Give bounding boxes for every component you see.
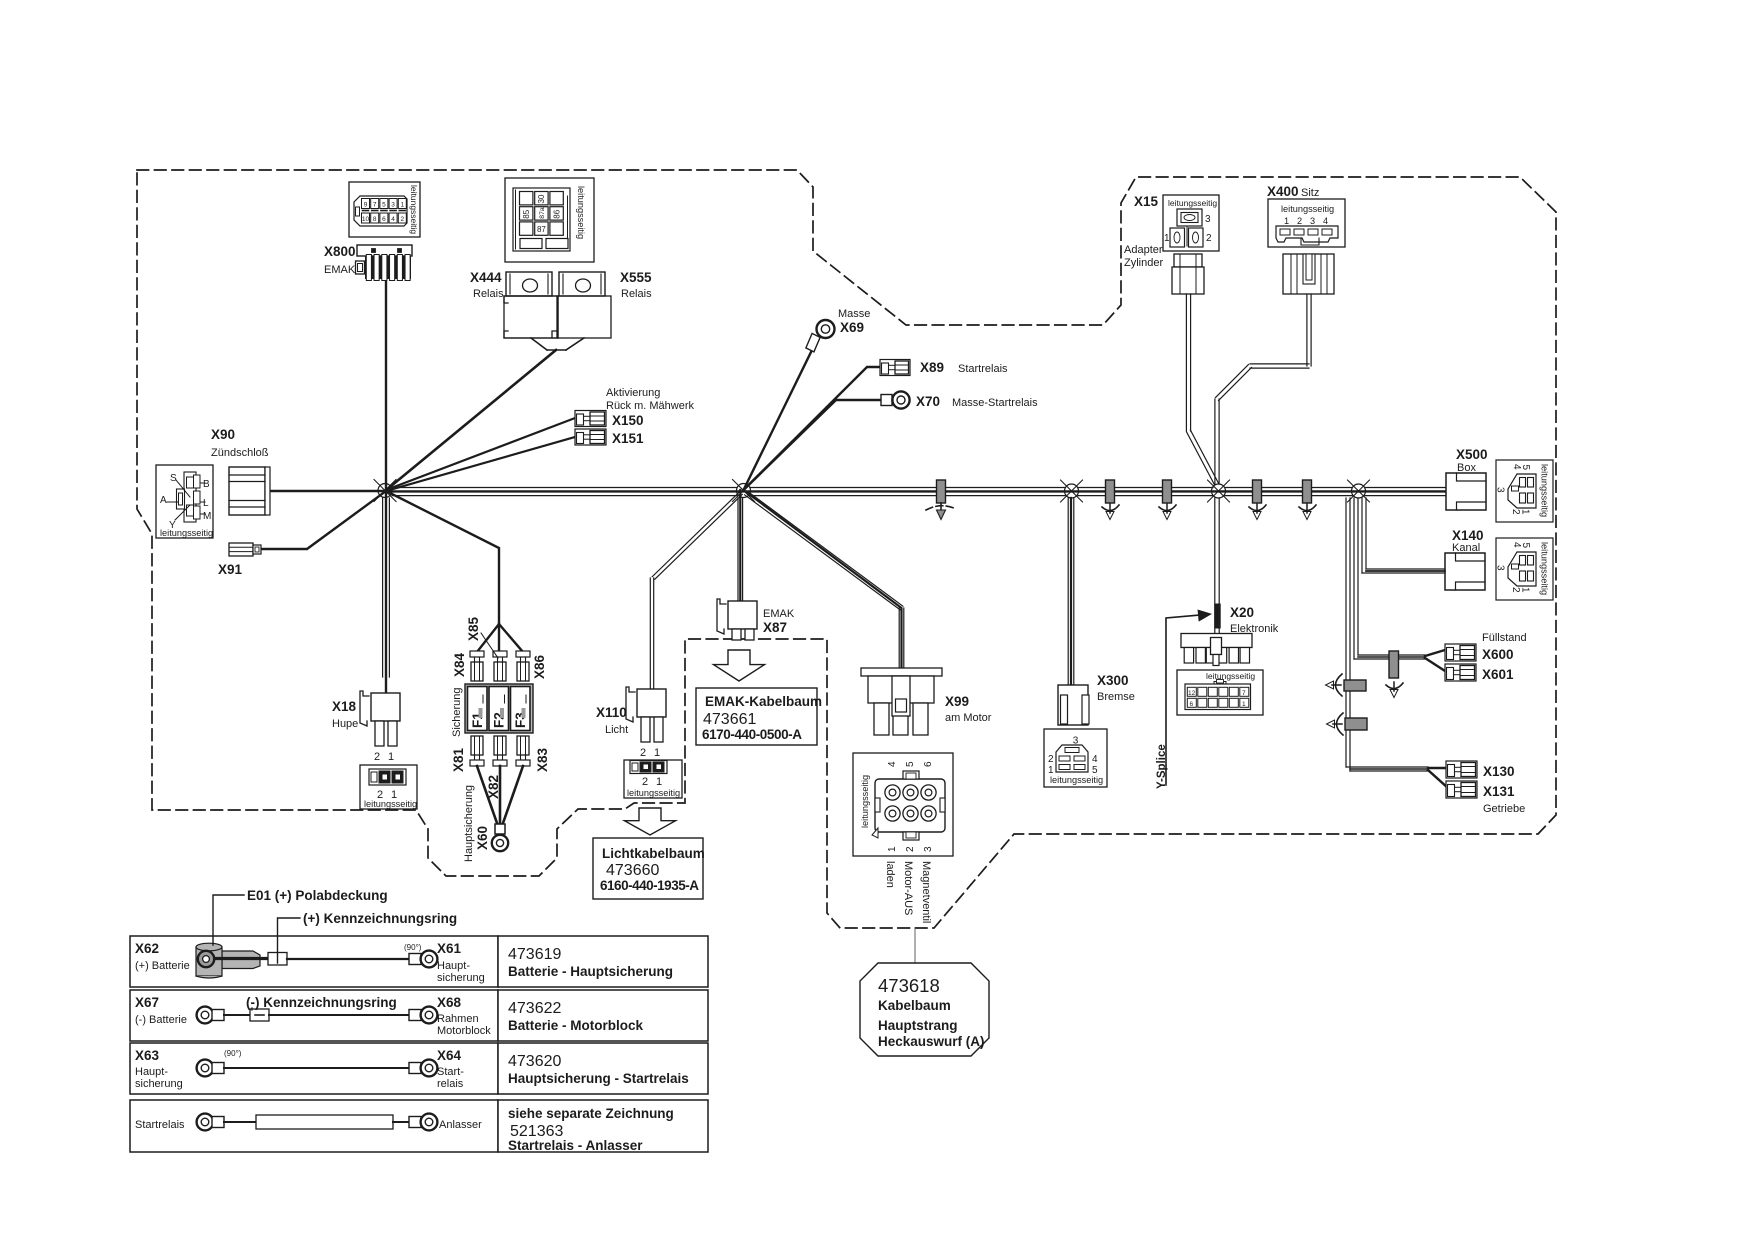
svg-text:(90°): (90°) bbox=[224, 1049, 242, 1058]
svg-text:(90°): (90°) bbox=[404, 943, 422, 952]
svg-text:X444: X444 bbox=[470, 270, 502, 285]
svg-text:8: 8 bbox=[373, 216, 377, 223]
svg-text:Licht: Licht bbox=[605, 724, 628, 736]
svg-text:5: 5 bbox=[382, 202, 386, 209]
svg-text:85: 85 bbox=[522, 209, 531, 218]
svg-text:3: 3 bbox=[1310, 216, 1315, 226]
ring terminal X61 bbox=[409, 954, 421, 965]
svg-text:X63: X63 bbox=[135, 1048, 160, 1063]
svg-text:leitungsseitig: leitungsseitig bbox=[1540, 542, 1550, 595]
svg-text:X85: X85 bbox=[466, 616, 481, 641]
cable tie on bus 1 bbox=[937, 480, 946, 503]
svg-text:86: 86 bbox=[552, 209, 561, 218]
Y-splice callout arrow bbox=[1166, 615, 1200, 785]
svg-text:leitungsseitig: leitungsseitig bbox=[1540, 464, 1550, 517]
node hub2 bbox=[733, 480, 755, 502]
svg-text:Motor-AUS: Motor-AUS bbox=[902, 861, 914, 915]
svg-text:X140: X140 bbox=[1452, 528, 1484, 543]
svg-text:2: 2 bbox=[374, 751, 380, 763]
svg-text:L: L bbox=[203, 498, 209, 509]
svg-text:6160-440-1935-A: 6160-440-1935-A bbox=[600, 878, 699, 893]
svg-text:1: 1 bbox=[388, 751, 394, 763]
svg-text:am Motor: am Motor bbox=[945, 712, 992, 724]
svg-text:Masse-Startrelais: Masse-Startrelais bbox=[952, 397, 1038, 409]
svg-text:X67: X67 bbox=[135, 995, 159, 1010]
svg-text:3: 3 bbox=[1495, 487, 1506, 493]
svg-text:473618: 473618 bbox=[878, 975, 940, 996]
svg-text:Haupt-: Haupt- bbox=[135, 1066, 168, 1078]
arrow to Lichtkabelbaum bbox=[625, 808, 676, 835]
svg-text:X90: X90 bbox=[211, 427, 235, 442]
svg-text:3: 3 bbox=[1495, 565, 1506, 571]
svg-text:leitungsseitig: leitungsseitig bbox=[1050, 775, 1103, 785]
wire X63-X64 bbox=[224, 1067, 410, 1069]
arrow to EMAK-Kabelbaum bbox=[714, 650, 765, 681]
svg-text:10: 10 bbox=[362, 216, 370, 223]
svg-text:X82: X82 bbox=[486, 775, 501, 799]
svg-text:X62: X62 bbox=[135, 941, 159, 956]
svg-text:X500: X500 bbox=[1456, 447, 1488, 462]
label pointer X85 bbox=[481, 633, 498, 658]
link line to octagon bbox=[914, 929, 916, 963]
connector X91 bbox=[229, 543, 261, 556]
wire hub1 to X151 bbox=[386, 437, 575, 491]
svg-text:5: 5 bbox=[905, 761, 916, 767]
pin diagram box for X20 bbox=[1177, 670, 1263, 715]
svg-text:2: 2 bbox=[1048, 754, 1054, 765]
svg-text:Hauptsicherung - Startrelais: Hauptsicherung - Startrelais bbox=[508, 1071, 689, 1086]
svg-text:(+) Kennzeichnungsring: (+) Kennzeichnungsring bbox=[303, 911, 457, 926]
pin diagram box for X15 bbox=[1163, 195, 1219, 251]
svg-text:EMAK: EMAK bbox=[324, 264, 356, 276]
table row 4 box bbox=[130, 1100, 498, 1152]
wire X67-X68 bbox=[269, 1014, 410, 1016]
pin diagram box for X800 bbox=[349, 182, 420, 237]
ring terminal Startrelais bbox=[197, 1114, 214, 1131]
svg-text:2: 2 bbox=[1206, 233, 1212, 244]
svg-text:X64: X64 bbox=[437, 1048, 462, 1063]
svg-text:X99: X99 bbox=[945, 694, 969, 709]
svg-text:6: 6 bbox=[1190, 701, 1194, 708]
svg-text:Startrelais: Startrelais bbox=[958, 363, 1008, 375]
svg-text:7: 7 bbox=[1242, 690, 1246, 697]
connector X150 bbox=[575, 411, 606, 427]
pin diagram box for X500 bbox=[1495, 460, 1554, 522]
wire node3 to X300 (double) bbox=[1067, 498, 1069, 685]
connector X90 bbox=[229, 467, 270, 515]
svg-text:X131: X131 bbox=[1483, 784, 1515, 799]
svg-text:siehe separate Zeichnung: siehe separate Zeichnung bbox=[508, 1106, 674, 1121]
svg-text:Lichtkabelbaum: Lichtkabelbaum bbox=[602, 846, 705, 861]
wire hub1 to X150 bbox=[386, 418, 575, 490]
svg-text:1: 1 bbox=[400, 202, 404, 209]
svg-text:sicherung: sicherung bbox=[437, 972, 485, 984]
svg-text:Sitz: Sitz bbox=[1301, 187, 1319, 199]
wire hub1 to X91 bbox=[259, 491, 386, 549]
pin diagram box for X300 bbox=[1044, 729, 1107, 787]
wire hub2 to X87 (double) bbox=[737, 498, 739, 601]
svg-text:Masse: Masse bbox=[838, 308, 870, 320]
svg-text:Bremse: Bremse bbox=[1097, 691, 1135, 703]
ring terminal X64 bbox=[409, 1063, 421, 1074]
wire hub1 to fuse feeder bbox=[386, 491, 499, 624]
svg-text:EMAK-Kabelbaum: EMAK-Kabelbaum bbox=[705, 694, 822, 709]
svg-text:1: 1 bbox=[1242, 701, 1246, 708]
svg-text:X81: X81 bbox=[451, 747, 466, 772]
svg-text:Magnetventil: Magnetventil bbox=[920, 861, 932, 923]
cable tie on bundle 1 bbox=[1344, 680, 1366, 691]
(+) ring marker bbox=[268, 953, 287, 966]
svg-text:1: 1 bbox=[1520, 587, 1531, 593]
svg-text:Relais: Relais bbox=[621, 288, 652, 300]
wire X400 to node4 (double) bbox=[1306, 294, 1308, 366]
svg-text:4: 4 bbox=[1092, 754, 1098, 765]
relay X555 bbox=[557, 272, 611, 338]
node bus junction node4 bbox=[1208, 480, 1230, 502]
svg-text:Heckauswurf (A): Heckauswurf (A) bbox=[878, 1034, 985, 1049]
svg-text:Sicherung: Sicherung bbox=[451, 687, 463, 737]
ring terminal X63 bbox=[197, 1060, 214, 1077]
wire hub2 to X110 (double) bbox=[652, 492, 740, 577]
svg-text:laden: laden bbox=[884, 861, 896, 888]
svg-text:2: 2 bbox=[400, 216, 404, 223]
connector X601 bbox=[1445, 664, 1476, 681]
svg-text:7: 7 bbox=[373, 202, 377, 209]
dashed harness boundary outline bbox=[137, 170, 1556, 928]
svg-text:2: 2 bbox=[905, 846, 916, 852]
svg-text:2: 2 bbox=[1510, 509, 1521, 515]
svg-text:leitungsseitig: leitungsseitig bbox=[1281, 204, 1334, 214]
svg-text:Y-Splice: Y-Splice bbox=[1156, 744, 1168, 789]
wire hub2 to X99 (double) bbox=[745, 495, 901, 610]
svg-text:4: 4 bbox=[391, 216, 395, 223]
svg-text:F1: F1 bbox=[470, 712, 485, 728]
svg-text:6: 6 bbox=[382, 216, 386, 223]
wire hub1 to relays X444/X555 bbox=[531, 338, 547, 350]
svg-text:X87: X87 bbox=[763, 620, 787, 635]
svg-text:F2: F2 bbox=[492, 712, 507, 728]
svg-text:M: M bbox=[203, 511, 211, 522]
svg-text:X601: X601 bbox=[1482, 667, 1514, 682]
pin display box for X110 bbox=[624, 760, 682, 798]
svg-text:EMAK: EMAK bbox=[763, 608, 795, 620]
svg-text:X300: X300 bbox=[1097, 673, 1129, 688]
wire node4 drop to X20 (double) bbox=[1214, 498, 1216, 634]
wire with sleeve bbox=[224, 1121, 256, 1123]
callout E01 Polabdeckung bbox=[213, 895, 244, 945]
svg-text:X84: X84 bbox=[452, 652, 467, 677]
svg-text:X61: X61 bbox=[437, 941, 462, 956]
svg-text:(-) Kennzeichnungsring: (-) Kennzeichnungsring bbox=[246, 995, 397, 1010]
svg-text:(-) Batterie: (-) Batterie bbox=[135, 1014, 187, 1026]
svg-text:X69: X69 bbox=[840, 320, 864, 335]
svg-text:Batterie - Motorblock: Batterie - Motorblock bbox=[508, 1018, 644, 1033]
ring terminal X60 bbox=[495, 824, 505, 834]
connector X140 bbox=[1445, 553, 1485, 590]
svg-text:leitungsseitig: leitungsseitig bbox=[627, 788, 680, 798]
svg-text:30: 30 bbox=[537, 194, 546, 203]
wire hub1 to X800 bbox=[385, 281, 387, 693]
svg-text:Hupe: Hupe bbox=[332, 718, 358, 730]
cable tie on bundle 2 bbox=[1345, 718, 1367, 730]
svg-text:leitungsseitig: leitungsseitig bbox=[1206, 671, 1255, 681]
svg-text:1: 1 bbox=[1520, 509, 1531, 515]
svg-text:Hauptsicherung: Hauptsicherung bbox=[463, 785, 475, 862]
svg-text:4: 4 bbox=[1323, 216, 1328, 226]
svg-text:473661: 473661 bbox=[703, 711, 756, 728]
svg-text:5: 5 bbox=[1520, 465, 1531, 471]
svg-text:1: 1 bbox=[1284, 216, 1289, 226]
svg-text:1: 1 bbox=[656, 776, 662, 788]
svg-text:leitungsseitig: leitungsseitig bbox=[860, 775, 870, 828]
svg-text:Füllstand: Füllstand bbox=[1482, 632, 1527, 644]
svg-text:Motorblock: Motorblock bbox=[437, 1025, 491, 1037]
fuse block F1 F2 F3 bbox=[465, 684, 533, 733]
wires fuse outputs to X60 bbox=[477, 766, 498, 826]
svg-text:X150: X150 bbox=[612, 413, 644, 428]
wire hub1 to X18 (double) bbox=[382, 498, 384, 677]
pin display box for X18 bbox=[360, 765, 417, 809]
node hub1 bbox=[374, 480, 396, 502]
pin diagram box Magnetventil (6-pin) bbox=[853, 753, 953, 856]
wire hub2 to X89 bbox=[744, 367, 883, 490]
svg-text:X83: X83 bbox=[535, 747, 550, 772]
svg-text:Rück m. Mähwerk: Rück m. Mähwerk bbox=[606, 400, 695, 412]
ring terminal X67 bbox=[197, 1007, 214, 1024]
Y-splice marker (black tie) on X20 wire bbox=[1215, 604, 1220, 628]
svg-text:Rahmen: Rahmen bbox=[437, 1013, 479, 1025]
svg-text:1: 1 bbox=[887, 846, 898, 852]
svg-text:2: 2 bbox=[1510, 587, 1521, 593]
svg-text:X20: X20 bbox=[1230, 605, 1254, 620]
svg-text:Batterie - Hauptsicherung: Batterie - Hauptsicherung bbox=[508, 964, 673, 979]
svg-text:9: 9 bbox=[364, 202, 368, 209]
connector X151 bbox=[575, 429, 606, 445]
svg-text:12: 12 bbox=[1188, 690, 1196, 697]
table row 3 box bbox=[130, 1043, 498, 1094]
svg-text:Startrelais: Startrelais bbox=[135, 1119, 185, 1131]
svg-text:S: S bbox=[170, 473, 177, 484]
svg-text:X110: X110 bbox=[596, 705, 627, 720]
svg-text:X400: X400 bbox=[1267, 184, 1299, 199]
wire hub2 to X69 bbox=[744, 350, 813, 490]
svg-text:473620: 473620 bbox=[508, 1053, 561, 1070]
svg-text:A: A bbox=[160, 495, 167, 506]
wire fuse Y-branch bbox=[477, 624, 523, 652]
pin diagram box for X90 (Zuendschloss) bbox=[156, 465, 213, 538]
svg-text:Anlasser: Anlasser bbox=[439, 1119, 482, 1131]
wire bundle below node5 bbox=[1345, 498, 1347, 767]
EMAK-Kabelbaum label box bbox=[696, 688, 822, 745]
svg-text:87: 87 bbox=[537, 225, 546, 234]
svg-text:X800: X800 bbox=[324, 244, 356, 259]
svg-text:X555: X555 bbox=[620, 270, 652, 285]
cable tie on Fuellstand branch bbox=[1389, 651, 1399, 678]
svg-text:3: 3 bbox=[391, 202, 395, 209]
wire X62-X61 bbox=[287, 958, 410, 960]
relay pin diagram box bbox=[505, 178, 594, 262]
svg-text:X68: X68 bbox=[437, 995, 462, 1010]
svg-text:(+) Batterie: (+) Batterie bbox=[135, 960, 190, 972]
wire hub2 to X70 bbox=[744, 400, 882, 490]
ring terminal X70 bbox=[881, 395, 892, 406]
svg-text:Haupt-: Haupt- bbox=[437, 960, 470, 972]
cable tie on bus 4 bbox=[1253, 480, 1262, 503]
fuse terminal X84 bbox=[470, 651, 484, 681]
svg-text:5: 5 bbox=[1520, 543, 1531, 549]
connector X130 bbox=[1446, 761, 1477, 778]
wire branch to X140 bbox=[1366, 568, 1445, 570]
svg-text:Zündschloß: Zündschloß bbox=[211, 447, 269, 459]
relay X444 bbox=[504, 272, 558, 338]
Lichtkabelbaum label box bbox=[593, 838, 705, 899]
svg-text:X91: X91 bbox=[218, 562, 243, 577]
svg-text:Start-: Start- bbox=[437, 1066, 464, 1078]
fuse terminal X81 bbox=[470, 736, 484, 766]
svg-text:X60: X60 bbox=[475, 826, 490, 850]
ring terminal X68 bbox=[409, 1010, 421, 1021]
svg-text:X130: X130 bbox=[1483, 764, 1515, 779]
connector X110 bbox=[626, 687, 666, 742]
svg-text:6: 6 bbox=[923, 761, 934, 767]
connector X300 bbox=[1058, 685, 1089, 725]
svg-text:X70: X70 bbox=[916, 394, 940, 409]
svg-text:473622: 473622 bbox=[508, 1000, 561, 1017]
svg-text:X89: X89 bbox=[920, 360, 944, 375]
pin diagram box for X400 bbox=[1268, 199, 1345, 247]
svg-text:Adapter: Adapter bbox=[1124, 244, 1163, 256]
svg-text:Aktivierung: Aktivierung bbox=[606, 387, 660, 399]
svg-text:Zylinder: Zylinder bbox=[1124, 257, 1163, 269]
svg-text:X600: X600 bbox=[1482, 647, 1514, 662]
svg-text:X18: X18 bbox=[332, 699, 357, 714]
svg-text:6170-440-0500-A: 6170-440-0500-A bbox=[702, 727, 802, 742]
svg-text:4: 4 bbox=[887, 761, 898, 767]
svg-text:leitungsseitig: leitungsseitig bbox=[576, 186, 586, 239]
label octagon 473618 Kabelbaum Hauptstrang bbox=[860, 963, 989, 1056]
callout (+) Kennzeichnungsring bbox=[278, 918, 301, 963]
svg-text:X151: X151 bbox=[612, 431, 644, 446]
svg-text:F3: F3 bbox=[513, 712, 528, 728]
svg-text:87a: 87a bbox=[539, 207, 546, 219]
svg-text:473660: 473660 bbox=[606, 862, 659, 879]
svg-text:473619: 473619 bbox=[508, 946, 561, 963]
svg-text:X15: X15 bbox=[1134, 194, 1159, 209]
svg-text:Relais: Relais bbox=[473, 288, 504, 300]
connector X87 EMAK bbox=[717, 599, 757, 640]
svg-text:leitungsseitig: leitungsseitig bbox=[409, 185, 419, 234]
svg-text:relais: relais bbox=[437, 1078, 464, 1090]
wire branch to X130/X131 bbox=[1346, 766, 1428, 768]
table row 2 box bbox=[130, 990, 498, 1041]
connector X20 bbox=[1181, 634, 1252, 666]
node bus junction node5 bbox=[1348, 480, 1370, 502]
svg-text:leitungsseitig: leitungsseitig bbox=[364, 799, 417, 809]
svg-text:1: 1 bbox=[654, 747, 660, 759]
svg-text:2: 2 bbox=[640, 747, 646, 759]
wire hub1 to X90 bbox=[270, 490, 388, 493]
wire main bus hub1-hub2 bbox=[392, 487, 737, 489]
table row 1 box bbox=[130, 936, 498, 987]
connector X131 bbox=[1446, 781, 1477, 798]
wire X15 to node4 (double) bbox=[1185, 294, 1187, 431]
cable tie on bus 3 bbox=[1163, 480, 1172, 503]
svg-text:3: 3 bbox=[1205, 214, 1211, 225]
svg-text:Kabelbaum: Kabelbaum bbox=[878, 998, 951, 1013]
pin diagram box for X140 bbox=[1495, 538, 1554, 600]
svg-text:Y: Y bbox=[169, 520, 176, 531]
fuse terminal X83 bbox=[516, 736, 530, 766]
callout (-) Kennzeichnungsring bbox=[251, 1008, 253, 1010]
svg-text:E01 (+) Polabdeckung: E01 (+) Polabdeckung bbox=[247, 888, 388, 903]
svg-text:Hauptstrang: Hauptstrang bbox=[878, 1018, 958, 1033]
fuse terminal X85 bbox=[493, 651, 507, 681]
connector X400 bbox=[1283, 254, 1334, 294]
(-) ring marker bbox=[224, 1014, 250, 1016]
svg-text:leitungsseitig: leitungsseitig bbox=[1168, 198, 1217, 208]
svg-text:leitungsseitig: leitungsseitig bbox=[160, 528, 213, 538]
svg-text:B: B bbox=[203, 479, 210, 490]
fuse terminal X82 bbox=[493, 736, 507, 766]
cable tie on bus 5 bbox=[1303, 480, 1312, 503]
connector X15 bbox=[1172, 254, 1204, 294]
cable tie on bus 2 bbox=[1106, 480, 1115, 503]
svg-text:2: 2 bbox=[1297, 216, 1302, 226]
svg-text:Getriebe: Getriebe bbox=[1483, 803, 1525, 815]
connector X99 bbox=[861, 668, 942, 735]
ring terminal Anlasser bbox=[409, 1117, 421, 1128]
svg-text:3: 3 bbox=[923, 846, 934, 852]
connector X18 bbox=[360, 691, 400, 746]
connector X600 bbox=[1445, 644, 1476, 661]
svg-text:X86: X86 bbox=[532, 654, 547, 679]
svg-text:2: 2 bbox=[642, 776, 648, 788]
svg-text:Startrelais - Anlasser: Startrelais - Anlasser bbox=[508, 1138, 643, 1153]
connector X500 bbox=[1446, 473, 1486, 510]
ring terminal X69 Masse bbox=[806, 333, 820, 352]
connector X800 bbox=[356, 245, 413, 281]
node bus junction node3 bbox=[1061, 480, 1083, 502]
connector X89 bbox=[880, 360, 910, 376]
svg-text:Box: Box bbox=[1457, 462, 1476, 474]
svg-text:Kanal: Kanal bbox=[1452, 542, 1480, 554]
wire branch to X600/X601 bbox=[1358, 654, 1425, 656]
svg-text:sicherung: sicherung bbox=[135, 1078, 183, 1090]
svg-text:1: 1 bbox=[1164, 233, 1170, 244]
fuse terminal X86 bbox=[516, 651, 530, 681]
battery terminal graphic X62 bbox=[196, 943, 268, 978]
